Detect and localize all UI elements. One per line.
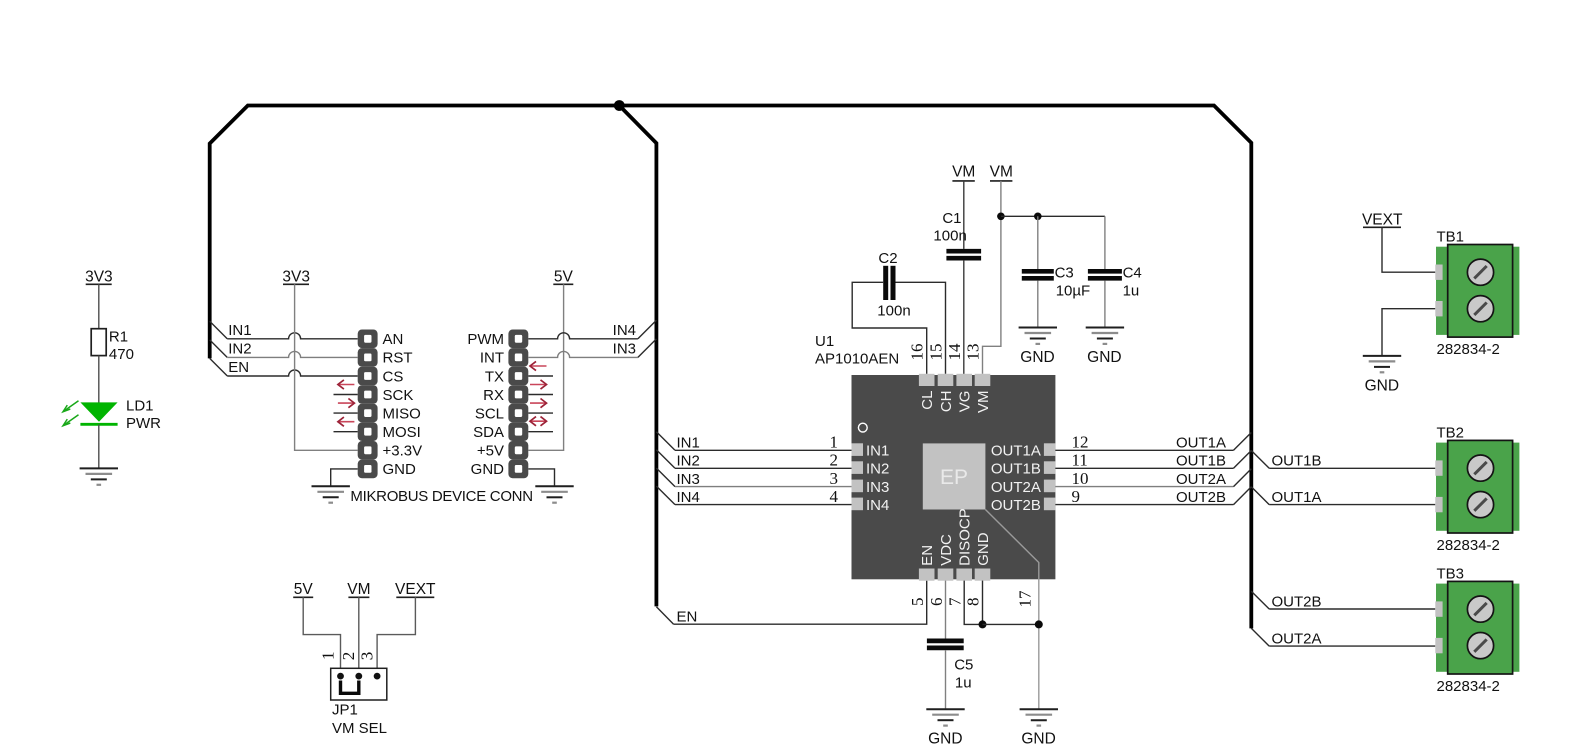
svg-text:13: 13	[964, 344, 983, 361]
svg-text:C4: C4	[1123, 265, 1142, 282]
ground symbol (C5)	[926, 708, 964, 710]
wire OUT2B diagonal to bus	[1234, 487, 1252, 505]
svg-text:OUT1A: OUT1A	[991, 443, 1041, 460]
svg-text:EN: EN	[677, 609, 698, 626]
wire U1 pin 7 DISOCP to gnd net	[964, 581, 982, 625]
wire P2 GND to ground	[528, 469, 554, 486]
junction pin17	[1035, 620, 1043, 628]
TB1 screw 2	[1467, 296, 1493, 322]
LD1 cathode bar	[80, 423, 117, 426]
stub MISO	[334, 412, 358, 414]
svg-text:EP: EP	[940, 466, 968, 489]
svg-text:CH: CH	[938, 391, 955, 413]
wire OUT2A diagonal from bus	[1251, 628, 1269, 646]
wire OUT2A to TB3 pin 2	[1269, 645, 1435, 647]
svg-text:OUT2B: OUT2B	[991, 497, 1041, 514]
wire EN to CS pin (hops 3V3)	[227, 370, 358, 376]
IC U1 body	[852, 375, 1056, 579]
svg-text:C3: C3	[1055, 265, 1074, 282]
svg-text:AN: AN	[383, 331, 404, 348]
wire OUT1A diagonal from bus	[1251, 487, 1269, 505]
wire OUT2B diagonal from bus	[1251, 591, 1269, 609]
wire to C4	[1104, 216, 1106, 269]
junction on bus (top)	[614, 100, 625, 111]
wire C1 to U1 pin 14 VG	[963, 261, 965, 374]
wire C4 to ground	[1104, 281, 1106, 328]
arrow MISO	[338, 402, 355, 404]
svg-text:DISOCP: DISOCP	[957, 508, 974, 566]
capacitor C1	[946, 249, 981, 254]
wire C3 to ground	[1037, 281, 1039, 328]
ground symbol (LED)	[80, 467, 118, 469]
stub MOSI	[334, 431, 358, 433]
svg-text:GND: GND	[975, 532, 992, 566]
TB3 screw 1	[1467, 596, 1493, 622]
wire IN1 branch diagonal (chip side)	[656, 432, 675, 451]
svg-text:IN4: IN4	[613, 322, 636, 339]
svg-text:1u: 1u	[955, 675, 972, 692]
svg-text:6: 6	[927, 598, 946, 607]
wire VEXT to JP1 pin 3	[377, 597, 415, 673]
svg-text:282834-2: 282834-2	[1437, 341, 1500, 358]
svg-text:IN3: IN3	[677, 471, 700, 488]
svg-text:MOSI: MOSI	[383, 424, 421, 441]
svg-text:17: 17	[1015, 590, 1034, 608]
svg-text:RX: RX	[483, 387, 504, 404]
U1 right pads (OUT1A-OUT2B)	[1044, 443, 1056, 456]
svg-text:IN1: IN1	[228, 322, 251, 339]
ground symbol (P1)	[312, 485, 350, 487]
capacitor C3	[1022, 269, 1054, 274]
wire TB1 pin 2 to ground	[1382, 309, 1435, 356]
stub TX	[528, 375, 553, 377]
TB1 pin stubs	[1435, 265, 1442, 280]
svg-text:3V3: 3V3	[282, 269, 310, 286]
wire 3V3 to +3.3V pin	[295, 284, 358, 450]
svg-text:EN: EN	[919, 545, 936, 566]
wire OUT1A to TB2 pin 2	[1269, 504, 1435, 506]
svg-text:CL: CL	[919, 391, 936, 410]
U1 top pads (CL CH VG VM)	[919, 374, 935, 386]
wire U1 pin 10 OUT2A to bus	[1055, 486, 1233, 488]
svg-text:1: 1	[830, 433, 839, 452]
svg-text:GND: GND	[1365, 377, 1399, 394]
svg-text:OUT1B: OUT1B	[991, 461, 1041, 478]
junction pin8	[979, 620, 987, 628]
stub SCL	[528, 412, 553, 414]
resistor R1	[91, 329, 106, 356]
svg-text:5: 5	[908, 598, 927, 607]
svg-text:TB3: TB3	[1437, 566, 1465, 583]
svg-text:GND: GND	[471, 461, 505, 478]
svg-text:PWM: PWM	[467, 331, 504, 348]
svg-text:VM: VM	[990, 164, 1013, 181]
svg-text:MISO: MISO	[383, 405, 421, 422]
svg-text:RST: RST	[383, 350, 413, 367]
LD1 emission arrow 2	[64, 415, 79, 425]
svg-text:IN2: IN2	[228, 341, 251, 358]
svg-text:VG: VG	[957, 391, 974, 413]
svg-text:9: 9	[1072, 487, 1081, 506]
svg-text:VM: VM	[975, 391, 992, 414]
wire VM to U1 pin 13	[983, 181, 1001, 374]
svg-text:10: 10	[1072, 469, 1089, 488]
wire EP pin 17	[985, 510, 1038, 710]
U1 pin1 marker circle	[858, 423, 867, 432]
svg-text:OUT2A: OUT2A	[1272, 631, 1322, 648]
svg-text:VEXT: VEXT	[1362, 212, 1403, 229]
svg-text:282834-2: 282834-2	[1437, 537, 1500, 554]
terminal block TB2 body	[1436, 443, 1448, 531]
wire IN3 branch diagonal (chip side)	[656, 468, 675, 487]
TB2 screw 2	[1467, 492, 1493, 518]
svg-text:VM: VM	[952, 164, 975, 181]
arrow SCK	[338, 384, 355, 386]
TB3 pin stubs	[1435, 601, 1442, 616]
svg-text:OUT2A: OUT2A	[1176, 471, 1226, 488]
svg-text:OUT1A: OUT1A	[1176, 435, 1226, 452]
svg-text:EN: EN	[228, 359, 249, 376]
arrow SCL	[530, 402, 547, 404]
jumper JP1 body	[331, 668, 387, 700]
ground symbol (TB1)	[1363, 355, 1401, 357]
stub SCK	[334, 394, 358, 396]
svg-text:5V: 5V	[294, 581, 314, 598]
U1 exposed pad EP	[923, 443, 986, 509]
ground symbol (C3)	[1019, 327, 1057, 329]
U1 left pads (IN1-IN4)	[852, 443, 864, 456]
TB3 screw 2	[1467, 633, 1493, 659]
svg-text:IN4: IN4	[866, 497, 889, 514]
svg-text:GND: GND	[1087, 349, 1121, 366]
wire OUT2B to TB3 pin 1	[1269, 608, 1435, 610]
junction VM 2	[1034, 213, 1042, 221]
svg-text:OUT1B: OUT1B	[1176, 453, 1226, 470]
terminal block TB1 body	[1436, 247, 1448, 335]
wire P1 GND to ground	[331, 469, 358, 486]
svg-text:15: 15	[927, 344, 946, 361]
svg-text:SDA: SDA	[473, 424, 504, 441]
arrow SDA	[530, 420, 547, 422]
svg-text:OUT2A: OUT2A	[991, 479, 1041, 496]
wire IN3 diagonal to bus	[638, 339, 657, 358]
svg-text:GND: GND	[1020, 349, 1054, 366]
svg-text:TX: TX	[485, 368, 504, 385]
svg-text:+3.3V: +3.3V	[383, 443, 423, 460]
wire C2 to U1 pin 16 CL	[852, 282, 927, 374]
wire OUT1A diagonal to bus	[1234, 433, 1252, 451]
wire OUT1B diagonal to bus	[1234, 451, 1252, 469]
header P1 left (mikrobus)	[358, 330, 378, 349]
svg-text:TB2: TB2	[1437, 425, 1465, 442]
wire OUT1B to TB2 pin 1	[1269, 467, 1435, 469]
svg-text:100n: 100n	[933, 227, 966, 244]
wire LD1 to ground	[98, 424, 100, 468]
svg-text:OUT2B: OUT2B	[1272, 593, 1322, 610]
svg-text:SCL: SCL	[475, 405, 504, 422]
svg-text:CS: CS	[383, 368, 404, 385]
capacitor C2	[883, 266, 888, 300]
svg-text:C1: C1	[942, 210, 961, 227]
svg-text:3: 3	[357, 652, 376, 661]
TB2 screw 1	[1467, 455, 1493, 481]
svg-text:1u: 1u	[1123, 282, 1140, 299]
wire EN branch diagonal	[210, 358, 228, 376]
wire U1 pin 11 OUT1B to bus	[1055, 467, 1233, 469]
wire OUT2A diagonal to bus	[1234, 469, 1252, 487]
svg-text:10µF: 10µF	[1056, 282, 1091, 299]
wire bus main polyline (IN/EN/OUT bundle)	[210, 106, 1252, 629]
wire 5V to JP1 pin 1	[303, 597, 340, 673]
capacitor C4	[1088, 269, 1122, 274]
wire VM rail to C3 C4	[1001, 215, 1105, 217]
wire IN1 to U1 pin 1	[675, 449, 852, 451]
svg-text:IN1: IN1	[677, 435, 700, 452]
wire IN4 diagonal to bus	[638, 320, 657, 339]
U1 bottom pads (EN VDC DISOCP GND)	[919, 569, 935, 581]
svg-text:5V: 5V	[554, 269, 574, 286]
LD1 emission arrow 1	[64, 401, 79, 411]
svg-text:VM: VM	[347, 581, 370, 598]
JP1 pin 1 dot	[337, 673, 344, 680]
svg-text:OUT1B: OUT1B	[1272, 453, 1322, 470]
svg-text:GND: GND	[383, 461, 417, 478]
svg-text:R1: R1	[109, 329, 128, 346]
wire OUT1B diagonal from bus	[1251, 451, 1269, 469]
wire PWM to IN4 (hops 5V)	[528, 333, 638, 339]
wire IN2 to U1 pin 2	[675, 467, 852, 469]
svg-text:282834-2: 282834-2	[1437, 678, 1500, 695]
svg-text:+5V: +5V	[477, 443, 504, 460]
wire U1 pin 8 GND down	[982, 581, 984, 625]
svg-text:IN2: IN2	[866, 461, 889, 478]
svg-text:AP1010AEN: AP1010AEN	[815, 350, 899, 367]
JP1 pin 3 dot	[374, 673, 381, 680]
svg-text:JP1: JP1	[332, 702, 358, 719]
svg-text:16: 16	[908, 344, 927, 361]
svg-text:LD1: LD1	[126, 398, 154, 415]
svg-text:U1: U1	[815, 333, 834, 350]
svg-text:3V3: 3V3	[85, 269, 113, 286]
wire U1 pin 9 OUT2B to bus	[1055, 504, 1233, 506]
wire R1 to LD1	[98, 356, 100, 403]
wire INT to IN3 (hops 5V)	[528, 351, 638, 357]
JP1 pin 2 dot	[355, 673, 362, 680]
wire C5 to ground	[945, 650, 947, 709]
svg-text:7: 7	[945, 597, 964, 606]
wire VM to JP1 pin 2	[358, 597, 360, 673]
svg-text:IN3: IN3	[866, 479, 889, 496]
wire U1 pin 12 OUT1A to bus	[1055, 449, 1233, 451]
arrow TX	[530, 365, 547, 367]
svg-text:1: 1	[318, 652, 337, 661]
wire IN1 branch diagonal	[210, 321, 228, 339]
svg-text:12: 12	[1072, 433, 1089, 452]
TB1 screw 1	[1467, 259, 1493, 285]
wire 5V to +5V pin	[528, 284, 563, 450]
LED LD1 triangle	[80, 402, 117, 421]
arrow MOSI	[338, 421, 355, 423]
junction VM 1	[997, 213, 1005, 221]
wire VM to C1	[963, 181, 965, 249]
svg-text:TB1: TB1	[1437, 229, 1465, 246]
wire C2 to U1 pin 15 CH	[896, 282, 946, 374]
wire gnd net to pin 17	[983, 623, 1039, 625]
svg-text:11: 11	[1072, 451, 1088, 470]
ground symbol (pin17)	[1020, 708, 1058, 710]
stub RX	[528, 394, 553, 396]
JP1 shunt bracket pins 1-2	[341, 681, 359, 694]
svg-text:VEXT: VEXT	[395, 581, 436, 598]
svg-text:8: 8	[964, 598, 983, 607]
svg-text:IN1: IN1	[866, 443, 889, 460]
capacitor C5	[927, 639, 964, 644]
wire IN2 branch diagonal	[210, 340, 228, 358]
svg-text:2: 2	[339, 652, 358, 661]
svg-text:OUT2B: OUT2B	[1176, 489, 1226, 506]
wire IN2 to RST pin (hops 3V3)	[227, 351, 358, 357]
ground symbol (C4)	[1086, 327, 1124, 329]
wire IN1 to AN pin (hops 3V3)	[227, 333, 358, 339]
svg-text:INT: INT	[480, 350, 504, 367]
stub SDA	[528, 431, 553, 433]
svg-text:IN2: IN2	[677, 453, 700, 470]
svg-text:14: 14	[945, 343, 964, 361]
wire 3V3 to R1	[98, 284, 100, 328]
svg-text:SCK: SCK	[383, 387, 414, 404]
svg-text:470: 470	[109, 346, 134, 363]
terminal block TB3 body	[1436, 584, 1448, 672]
svg-text:OUT1A: OUT1A	[1272, 489, 1322, 506]
svg-text:4: 4	[830, 487, 839, 506]
wire EN to U1 pin 5	[674, 581, 927, 625]
svg-text:VM SEL: VM SEL	[332, 720, 387, 737]
ground symbol (P2)	[535, 485, 573, 487]
svg-text:3: 3	[830, 469, 839, 488]
wire U1 pin 6 VDC to C5	[945, 581, 947, 639]
svg-text:C5: C5	[954, 656, 973, 673]
svg-text:GND: GND	[1021, 731, 1055, 748]
wire VEXT to TB1 pin 1	[1382, 227, 1435, 272]
TB2 pin stubs	[1435, 460, 1442, 475]
wire IN3 to U1 pin 3	[675, 486, 852, 488]
svg-text:GND: GND	[928, 731, 962, 748]
header P2 right (mikrobus)	[508, 330, 528, 349]
wire IN2 branch diagonal (chip side)	[656, 450, 675, 469]
svg-text:IN4: IN4	[677, 489, 700, 506]
wire IN4 to U1 pin 4	[675, 504, 852, 506]
svg-text:2: 2	[830, 451, 839, 470]
svg-text:C2: C2	[878, 250, 897, 267]
svg-text:IN3: IN3	[613, 340, 636, 357]
arrow RX	[530, 384, 547, 386]
svg-text:100n: 100n	[877, 303, 910, 320]
svg-text:PWR: PWR	[126, 415, 161, 432]
svg-text:MIKROBUS DEVICE CONN: MIKROBUS DEVICE CONN	[350, 488, 532, 505]
svg-text:VDC: VDC	[938, 534, 955, 566]
wire to C3	[1037, 216, 1039, 269]
wire EN branch diagonal (bottom)	[656, 607, 673, 624]
wire bus branch to inner vertical	[619, 106, 656, 607]
wire IN4 branch diagonal (chip side)	[656, 486, 675, 505]
